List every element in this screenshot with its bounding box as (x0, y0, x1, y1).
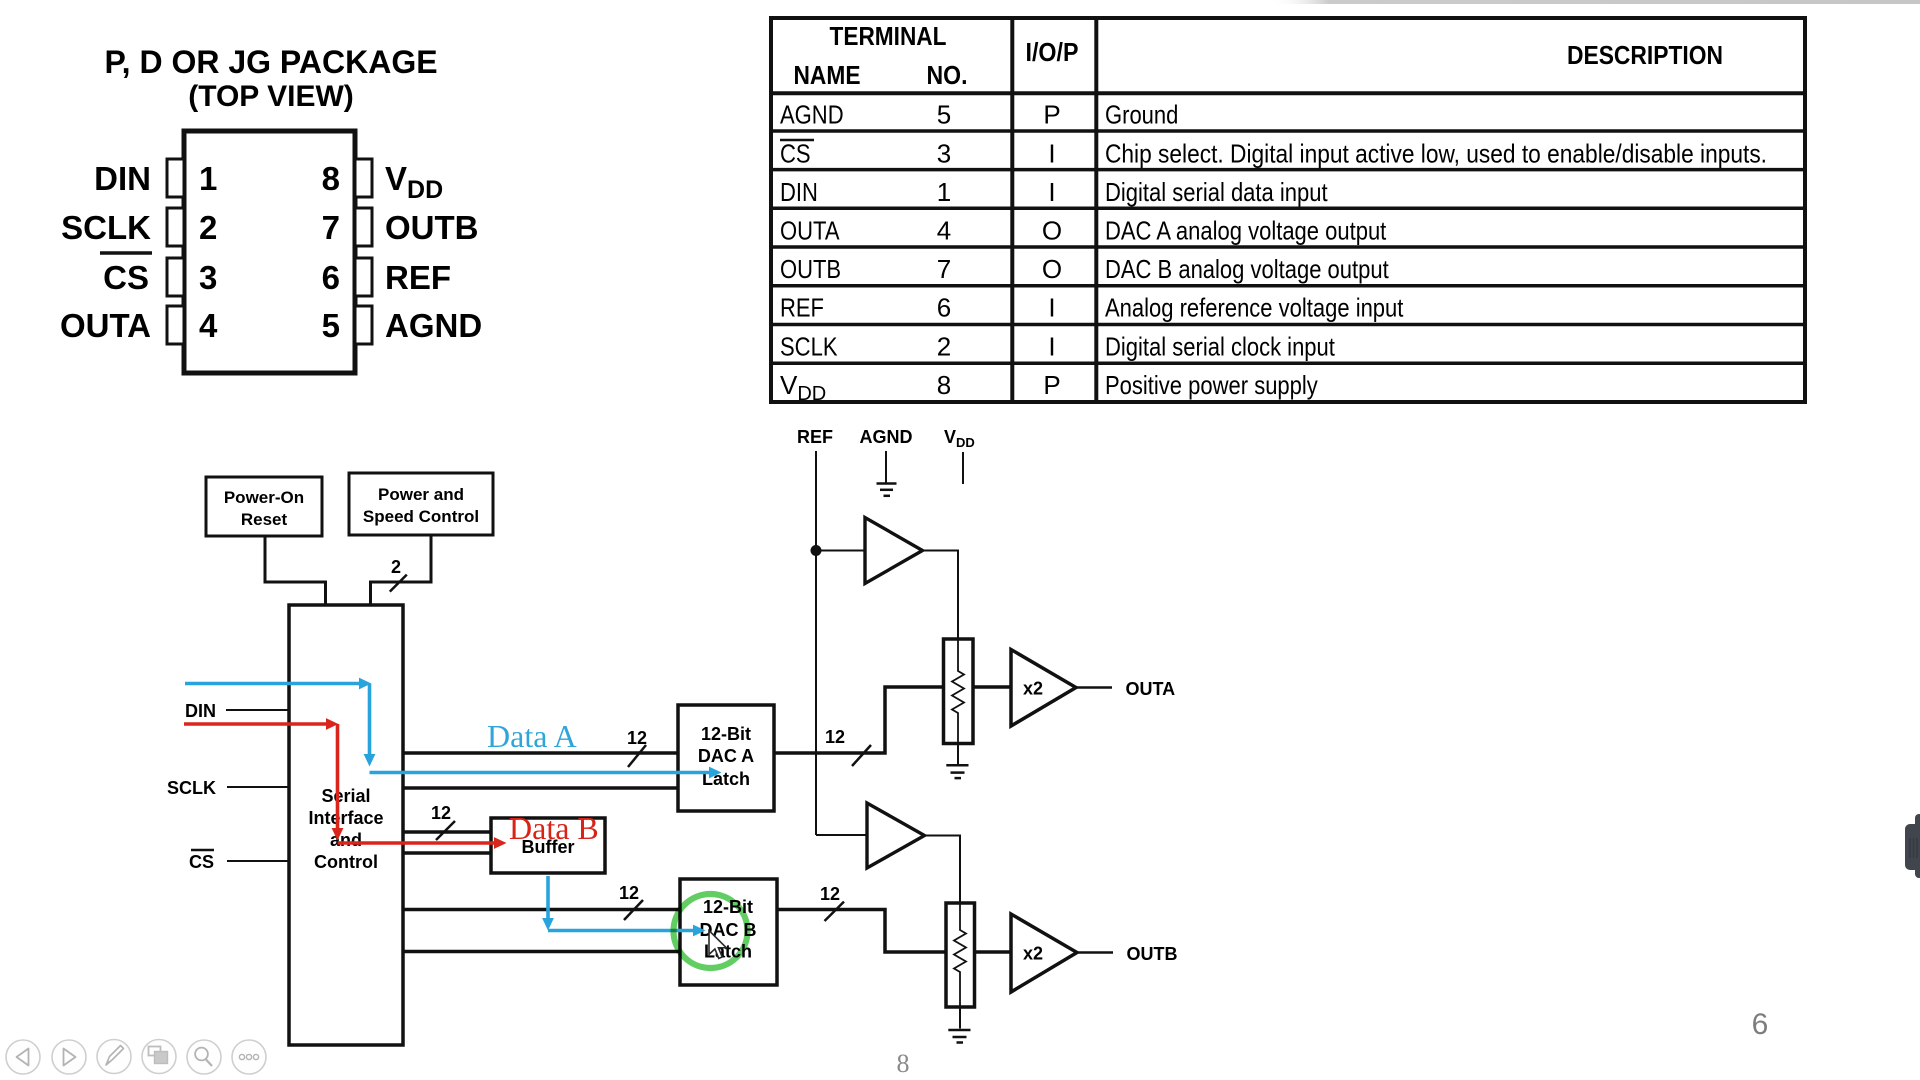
right edge scrollbar back pill (1915, 814, 1920, 878)
svg-text:6: 6 (937, 293, 951, 323)
bus Serial to Buffer (lower) (403, 851, 491, 855)
table row CS-bar (780, 139, 1767, 169)
pin 7 OUTB (322, 208, 479, 246)
bus width label 12 (DAC B output) (820, 884, 844, 921)
pin 1 DIN (94, 159, 217, 197)
svg-text:DAC A: DAC A (698, 746, 754, 766)
node junction dot on REF (811, 545, 822, 556)
svg-text:3: 3 (937, 139, 951, 169)
op-amp U2 (reference buffer B) (867, 803, 925, 868)
terminal table frame (771, 18, 1805, 402)
svg-text:Positive power supply: Positive power supply (1105, 370, 1318, 400)
svg-text:AGND: AGND (860, 427, 913, 447)
svg-text:12: 12 (627, 728, 647, 748)
svg-text:OUTB: OUTB (385, 209, 479, 246)
viewer nav button next (52, 1040, 86, 1074)
svg-text:OUTA: OUTA (60, 307, 151, 344)
svg-text:6: 6 (322, 259, 340, 296)
block 12-Bit DAC B Latch (680, 879, 777, 985)
viewer nav button previous (6, 1040, 40, 1074)
wire Power and Speed Control to Serial Interface (371, 535, 432, 605)
svg-text:12-Bit: 12-Bit (701, 724, 751, 744)
svg-text:AGND: AGND (385, 307, 482, 344)
right edge scrollbar handle (1905, 824, 1920, 870)
bus Serial to DAC A latch (upper) (403, 751, 678, 755)
svg-text:x2: x2 (1023, 944, 1043, 964)
svg-text:8: 8 (937, 370, 951, 400)
svg-text:I/O/P: I/O/P (1026, 37, 1079, 67)
svg-text:8: 8 (322, 160, 340, 197)
svg-text:TERMINAL: TERMINAL (830, 21, 947, 51)
wire DAC B latch to R2 input (777, 910, 946, 953)
svg-text:Power-On: Power-On (224, 488, 304, 507)
svg-text:SCLK: SCLK (61, 209, 151, 246)
bus Serial to DAC A latch (lower) (403, 786, 678, 790)
svg-text:CS: CS (780, 139, 811, 169)
svg-text:I: I (1048, 177, 1055, 207)
svg-text:I: I (1048, 332, 1055, 362)
table row DIN (780, 177, 1328, 207)
svg-text:12: 12 (820, 884, 840, 904)
svg-text:1: 1 (199, 160, 217, 197)
annotation red arrow DIN to buffer path (184, 724, 338, 828)
svg-text:NO.: NO. (927, 60, 968, 90)
wire SCLK (227, 786, 289, 788)
table column divider 2 (1094, 18, 1098, 402)
svg-text:REF: REF (797, 427, 833, 447)
ground symbol below R2 (948, 1007, 970, 1043)
block 12-Bit DAC A Latch (678, 705, 774, 811)
svg-text:DAC A analog voltage output: DAC A analog voltage output (1105, 216, 1387, 246)
table row REF (780, 293, 1404, 323)
wire Power-On Reset to Serial Interface (265, 536, 326, 605)
svg-text:4: 4 (199, 307, 218, 344)
bus Serial to DAC B latch (upper) (403, 908, 680, 912)
viewer pen tool button (97, 1040, 131, 1074)
svg-text:8: 8 (897, 1049, 910, 1078)
svg-text:Chip select. Digital input act: Chip select. Digital input active low, u… (1105, 139, 1767, 169)
op-amp U1 (reference buffer A) (865, 518, 923, 584)
table row line 7 (771, 361, 1805, 365)
annotation green circle highlight on DAC B latch (674, 894, 748, 968)
svg-text:Speed Control: Speed Control (363, 507, 479, 526)
svg-text:OUTB: OUTB (1127, 944, 1178, 964)
svg-text:DIN: DIN (185, 701, 216, 721)
svg-text:2: 2 (937, 332, 951, 362)
bus width label 12 (DAC A input) (627, 728, 647, 767)
block Power-On Reset (206, 477, 322, 536)
viewer top edge bar (1240, 0, 1920, 4)
table row line 6 (771, 323, 1805, 327)
pin 5 AGND (322, 306, 483, 344)
pin 4 OUTA (60, 306, 218, 344)
resistor R2 (DAC B ladder) (946, 903, 975, 1007)
table row line 1 (771, 129, 1805, 133)
annotation blue arrow Buffer to DAC B latch (548, 876, 693, 931)
svg-text:Interface: Interface (308, 808, 383, 828)
op-amp U4 x2 output amp B (1011, 914, 1077, 992)
svg-text:DAC B analog voltage output: DAC B analog voltage output (1105, 254, 1389, 284)
svg-text:Serial: Serial (321, 786, 370, 806)
wire R1 to x2 amp A (973, 685, 1011, 689)
svg-text:OUTA: OUTA (1126, 679, 1176, 699)
bus width label 2 (390, 557, 407, 592)
svg-text:7: 7 (322, 209, 340, 246)
svg-text:2: 2 (391, 557, 401, 577)
svg-text:Data A: Data A (487, 718, 577, 754)
svg-text:O: O (1042, 216, 1062, 246)
pin 6 REF (322, 258, 451, 296)
block Serial Interface and Control (289, 605, 403, 1045)
bus width label 12 (DAC A output) (825, 727, 871, 766)
wire OUTA output (1076, 686, 1112, 689)
ground symbol below R1 (946, 744, 968, 779)
table row VDD (780, 370, 1318, 405)
pin 2 SCLK (61, 208, 217, 246)
table row OUTB (780, 254, 1389, 284)
svg-text:7: 7 (937, 254, 951, 284)
table row line 2 (771, 168, 1805, 172)
svg-text:12: 12 (619, 883, 639, 903)
svg-text:DESCRIPTION: DESCRIPTION (1567, 40, 1723, 70)
svg-text:P: P (1043, 370, 1060, 400)
svg-text:CS: CS (189, 852, 214, 872)
annotation blue arrow DIN into serial interface (185, 684, 370, 755)
block Buffer (491, 818, 605, 873)
svg-text:1: 1 (937, 177, 951, 207)
viewer zoom button (187, 1040, 221, 1074)
svg-text:OUTA: OUTA (780, 216, 840, 246)
svg-text:OUTB: OUTB (780, 254, 841, 284)
svg-text:AGND: AGND (780, 100, 844, 130)
svg-text:DIN: DIN (94, 160, 151, 197)
block Power and Speed Control (349, 473, 493, 535)
wire R2 to x2 amp B (975, 950, 1012, 954)
mouse cursor pointer (709, 931, 726, 959)
bus Serial to Buffer (upper) (403, 830, 491, 834)
wire CS (227, 860, 289, 862)
svg-text:NAME: NAME (794, 60, 861, 90)
wire AGND stub (885, 451, 887, 483)
IC package body U0 (184, 131, 355, 373)
svg-text:Control: Control (314, 852, 378, 872)
svg-text:6: 6 (1752, 1008, 1769, 1041)
svg-text:P, D OR JG PACKAGE: P, D OR JG PACKAGE (104, 44, 437, 80)
wire VDD stub (962, 452, 964, 484)
wire OUTB output (1077, 951, 1113, 954)
wire U1 output to resistor R1 top (922, 551, 958, 641)
svg-text:x2: x2 (1023, 679, 1043, 699)
svg-text:P: P (1043, 100, 1060, 130)
wire U2 output to resistor R2 top (925, 836, 961, 904)
wire REF vertical (815, 451, 817, 835)
svg-text:REF: REF (385, 259, 451, 296)
op-amp U3 x2 output amp A (1011, 650, 1076, 727)
svg-text:DIN: DIN (780, 177, 818, 207)
resistor R1 (DAC A ladder) (944, 639, 974, 744)
pin 8 VDD (322, 159, 443, 204)
table row line 3 (771, 207, 1805, 211)
table header row separator (771, 91, 1805, 95)
svg-text:5: 5 (322, 307, 340, 344)
table row OUTA (780, 216, 1387, 246)
svg-text:5: 5 (937, 100, 951, 130)
table row AGND (780, 100, 1178, 130)
svg-text:3: 3 (199, 259, 217, 296)
svg-text:4: 4 (937, 216, 951, 246)
table row SCLK (780, 332, 1336, 362)
svg-text:SCLK: SCLK (167, 778, 216, 798)
bus Serial to DAC B latch (lower) (403, 950, 680, 954)
annotation red arrow Data B into buffer (338, 837, 507, 849)
wire DIN (226, 709, 289, 711)
viewer slides tool button (142, 1040, 176, 1074)
svg-text:REF: REF (780, 293, 824, 323)
ground symbol AGND (877, 484, 897, 496)
svg-text:12: 12 (431, 803, 451, 823)
bus width label 12 (Buffer input) (431, 803, 455, 840)
svg-text:Reset: Reset (241, 510, 288, 529)
table row line 4 (771, 245, 1805, 249)
svg-text:(TOP VIEW): (TOP VIEW) (188, 80, 354, 113)
svg-text:I: I (1048, 293, 1055, 323)
svg-text:2: 2 (199, 209, 217, 246)
svg-text:SCLK: SCLK (780, 332, 838, 362)
table column divider 1 (1010, 18, 1014, 402)
pin 3 CS-bar (100, 253, 217, 296)
wire REF to buffer amp B (816, 834, 867, 836)
wire REF node to buffer amp A (816, 550, 865, 552)
bus width label 12 (DAC B input) (619, 883, 643, 920)
table row line 5 (771, 284, 1805, 288)
svg-text:Ground: Ground (1105, 100, 1178, 130)
svg-text:Analog reference voltage input: Analog reference voltage input (1105, 293, 1404, 323)
package diagram title (104, 44, 437, 113)
svg-text:I: I (1048, 139, 1055, 169)
wire DAC A latch to R1 input (774, 687, 944, 753)
svg-text:Power and: Power and (378, 485, 464, 504)
svg-text:O: O (1042, 254, 1062, 284)
svg-text:CS: CS (103, 259, 149, 296)
pin label CS-bar (189, 850, 214, 872)
svg-text:Digital serial clock input: Digital serial clock input (1105, 332, 1336, 362)
svg-text:Digital serial data input: Digital serial data input (1105, 177, 1328, 207)
svg-text:12: 12 (825, 727, 845, 747)
viewer more options button (232, 1040, 266, 1074)
svg-text:Data B: Data B (509, 810, 599, 846)
annotation blue arrow Data A to DAC A latch (370, 767, 722, 779)
